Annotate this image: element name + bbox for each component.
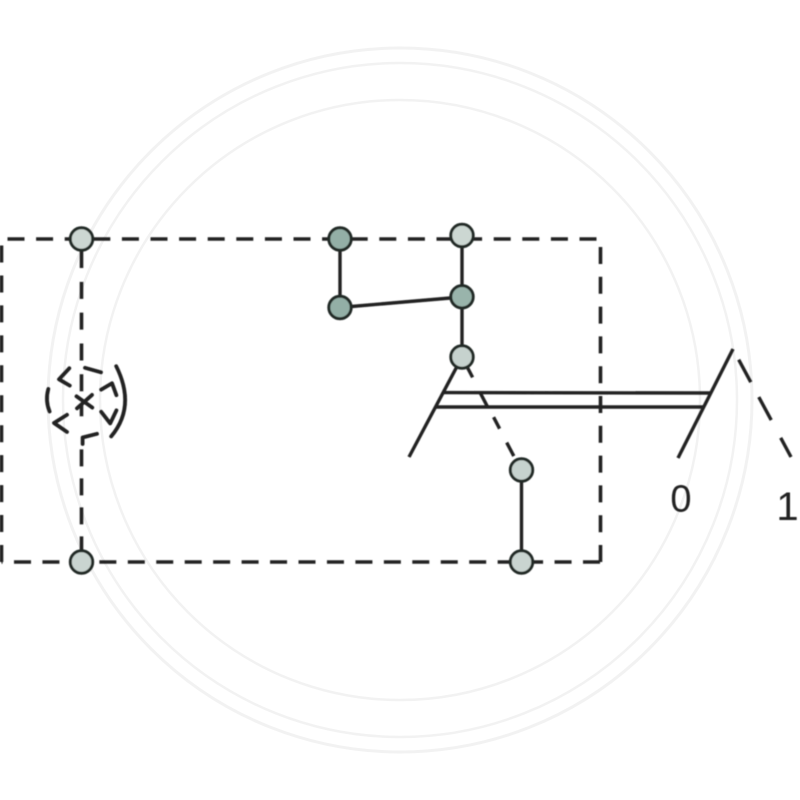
- svg-text:0: 0: [670, 479, 691, 521]
- svg-text:1: 1: [776, 485, 798, 529]
